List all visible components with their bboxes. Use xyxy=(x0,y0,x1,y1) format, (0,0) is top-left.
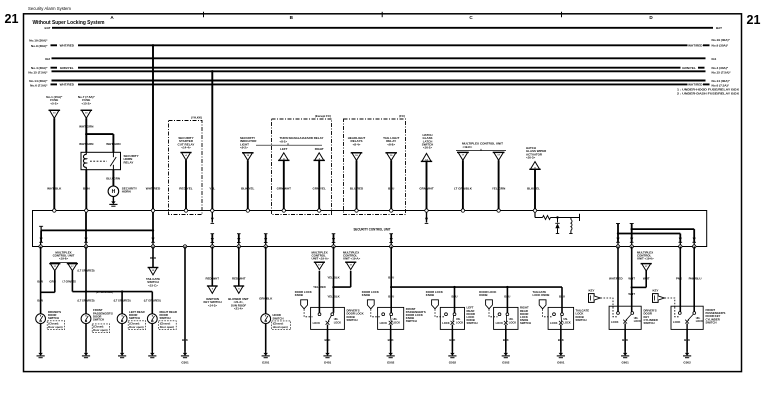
svg-text:21: 21 xyxy=(5,12,19,26)
svg-text:PNK/BLU: PNK/BLU xyxy=(689,276,702,280)
internal out stub x238 xyxy=(237,233,241,235)
svg-text:GRN/BLK: GRN/BLK xyxy=(259,296,273,300)
internal arrow 1 xyxy=(40,230,42,242)
hood switch xyxy=(265,247,267,314)
pin top x283 xyxy=(282,209,285,212)
svg-text:GRN/YEL: GRN/YEL xyxy=(313,186,327,190)
svg-text:SWITCH: SWITCH xyxy=(406,319,417,323)
internal resistor network xyxy=(534,212,536,217)
internal out stub x391 xyxy=(389,233,393,235)
svg-text:SWITCH: SWITCH xyxy=(93,318,104,322)
pin top x391 xyxy=(390,209,393,212)
svg-text:2 : UNDER-DASH FUSE/RELAY BOX: 2 : UNDER-DASH FUSE/RELAY BOX xyxy=(677,92,739,96)
svg-text:RED/WHT: RED/WHT xyxy=(206,276,220,280)
pin bottom x631 xyxy=(630,245,633,248)
pin bottom x185 xyxy=(183,245,186,248)
pin bottom x212 xyxy=(211,245,214,248)
svg-text:GRN: GRN xyxy=(49,279,55,283)
svg-text:(LT GRN/RED): (LT GRN/RED) xyxy=(114,298,131,302)
ground G601 b5 xyxy=(560,351,562,354)
bus wire No.14 xyxy=(52,80,706,82)
svg-text:SWITCH: SWITCH xyxy=(706,320,717,324)
svg-text:BLK: BLK xyxy=(503,338,510,342)
svg-text:SWITCH: SWITCH xyxy=(48,316,59,320)
pin top x462 xyxy=(461,209,464,212)
svg-text:SWITCH: SWITCH xyxy=(160,316,171,320)
svg-text:BLU: BLU xyxy=(388,275,394,279)
internal out stub x265 xyxy=(264,233,268,235)
ground driver door switch xyxy=(40,351,42,354)
wire BLK to G301 xyxy=(184,247,186,352)
svg-text:WHT/RED: WHT/RED xyxy=(146,186,161,190)
internal cross wire 2 xyxy=(618,233,680,235)
svg-text:LOCK: LOCK xyxy=(563,320,570,324)
svg-text:BLU/GRN: BLU/GRN xyxy=(106,177,120,181)
ground G502 b3 xyxy=(451,351,453,354)
ignition key switch ref xyxy=(211,247,213,287)
svg-text:BAT: BAT xyxy=(45,26,51,30)
right rear door lock knob switch xyxy=(494,307,518,329)
ground G502 b4 xyxy=(505,351,507,354)
pin bottom x391 xyxy=(390,245,393,248)
svg-text:G502: G502 xyxy=(449,360,457,364)
dash-dot box FC xyxy=(344,119,406,215)
svg-text:21: 21 xyxy=(747,13,761,27)
wire WHT key cyl xyxy=(631,247,633,313)
security control unit xyxy=(33,211,707,247)
svg-text:SWITCH: SWITCH xyxy=(520,321,531,325)
svg-text:KNOB: KNOB xyxy=(426,293,434,297)
pin top x247 xyxy=(246,209,249,212)
svg-text:SWITCH: SWITCH xyxy=(644,321,655,325)
svg-text:G502: G502 xyxy=(683,360,691,364)
svg-text:KNOB: KNOB xyxy=(479,293,487,297)
svg-text:G502: G502 xyxy=(387,360,395,364)
relay security horn relay xyxy=(81,152,121,169)
svg-text:LT GRN/RED: LT GRN/RED xyxy=(62,279,76,283)
svg-text:BLK: BLK xyxy=(684,338,691,342)
wire BLU drop right rear xyxy=(506,286,508,288)
internal diode xyxy=(557,218,559,223)
svg-text:BLU: BLU xyxy=(559,295,565,299)
wire PNK/BLU xyxy=(693,247,695,313)
svg-text:Hood open): Hood open) xyxy=(273,325,288,329)
svg-text:Door open): Door open) xyxy=(48,325,62,329)
pin bottom x86 xyxy=(84,245,87,248)
svg-text:GRN/WHT: GRN/WHT xyxy=(277,186,291,190)
internal coil xyxy=(570,218,572,220)
wire BLU drop tailgate xyxy=(561,287,563,313)
svg-text:BLK/YEL: BLK/YEL xyxy=(527,186,540,190)
svg-text:WHT/RED: WHT/RED xyxy=(688,44,703,48)
right rear door switch xyxy=(147,314,157,324)
svg-text:BLK: BLK xyxy=(622,338,629,342)
svg-text:(Closed:: (Closed: xyxy=(93,325,104,329)
svg-text:(FC): (FC) xyxy=(399,114,405,118)
ground G601 kc1 xyxy=(624,351,626,354)
svg-text:B/W: B/W xyxy=(37,279,43,283)
pin top x86 xyxy=(85,209,88,212)
svg-text:GRN/YEL: GRN/YEL xyxy=(60,66,74,70)
wire LT GRN/RED passenger xyxy=(85,247,87,314)
pin top x498 xyxy=(497,209,500,212)
svg-text:RIGHT: RIGHT xyxy=(315,147,324,151)
svg-text:(Closed:: (Closed: xyxy=(129,321,140,325)
pin bottom x333 xyxy=(332,245,335,248)
driver's door switch xyxy=(36,314,46,324)
wire branch to relay contact xyxy=(86,133,113,135)
svg-text:GRN/WHT: GRN/WHT xyxy=(419,186,433,190)
svg-text:Without Super Locking System: Without Super Locking System xyxy=(33,20,105,26)
svg-text:LOCK: LOCK xyxy=(380,321,387,325)
svg-text:LOCK: LOCK xyxy=(393,320,400,324)
svg-text:BLK: BLK xyxy=(182,338,189,342)
svg-text:YEL/RED: YEL/RED xyxy=(313,285,326,289)
wire BLU main xyxy=(390,247,392,313)
wire B/W driver door switch xyxy=(40,247,42,314)
svg-text:G401: G401 xyxy=(324,360,332,364)
svg-text:<5-2>: <5-2> xyxy=(50,101,58,105)
svg-text:BLK: BLK xyxy=(388,338,395,342)
svg-text:<15-2>: <15-2> xyxy=(82,101,92,105)
dash-dot box YH KK xyxy=(169,121,203,215)
pin bottom x153 xyxy=(151,245,154,248)
wire YEL feed xyxy=(211,70,213,72)
security horn xyxy=(108,186,119,197)
wire left rear xyxy=(121,292,123,314)
wire BLU drop left rear xyxy=(453,286,455,288)
column tick C/D xyxy=(561,12,563,17)
svg-text:IG1: IG1 xyxy=(712,57,717,61)
pin bottom x618 xyxy=(616,245,619,248)
svg-text:RED/YEL: RED/YEL xyxy=(179,186,193,190)
svg-text:WHT/BLK: WHT/BLK xyxy=(47,186,62,190)
svg-text:(Except FC): (Except FC) xyxy=(315,114,331,118)
ground G201 xyxy=(265,351,267,354)
svg-text:BLU: BLU xyxy=(504,295,510,299)
svg-text:G201: G201 xyxy=(262,360,270,364)
internal stub A xyxy=(616,223,620,225)
svg-text:SWITCH: SWITCH xyxy=(576,318,587,322)
svg-text:YEL: YEL xyxy=(209,186,215,190)
svg-text:<21-4>: <21-4> xyxy=(234,306,243,310)
svg-text:<9-2>: <9-2> xyxy=(240,146,248,150)
svg-text:B/W: B/W xyxy=(37,298,43,302)
svg-text:No.9 (30A)*: No.9 (30A)* xyxy=(712,44,729,48)
front passenger's door switch xyxy=(81,314,91,324)
svg-text:Door open): Door open) xyxy=(93,328,107,332)
svg-text:PNK: PNK xyxy=(676,276,683,280)
svg-text:SECURITY CONTROL UNIT: SECURITY CONTROL UNIT xyxy=(354,228,391,232)
ground G301 xyxy=(184,351,186,354)
svg-text:SWITCH: SWITCH xyxy=(467,321,478,325)
pin top x319 xyxy=(318,209,321,212)
svg-text:BAT: BAT xyxy=(716,26,722,30)
svg-text:LOCK: LOCK xyxy=(611,320,618,324)
pin bottom x265 xyxy=(264,245,267,248)
svg-text:WHT/RED: WHT/RED xyxy=(60,44,75,48)
svg-text:WHT/GRN: WHT/GRN xyxy=(79,142,93,146)
svg-text:YEL/BLK: YEL/BLK xyxy=(327,295,340,299)
tailgate lock knob switch xyxy=(548,307,574,329)
svg-text:No.9 (30A)*: No.9 (30A)* xyxy=(31,44,48,48)
ground left rear door switch xyxy=(121,351,123,354)
svg-text:Door open): Door open) xyxy=(129,325,143,329)
ground G401 xyxy=(327,351,329,354)
ground passenger door switch xyxy=(85,351,87,354)
svg-text:LOCK: LOCK xyxy=(496,321,503,325)
svg-text:GRN/YEL: GRN/YEL xyxy=(682,66,696,70)
internal wire 3 xyxy=(152,212,154,242)
bus wire IG2 xyxy=(52,57,706,59)
pin top x426 xyxy=(425,209,428,212)
blower unit ref xyxy=(238,247,240,287)
ground G502 kc2 xyxy=(686,351,688,354)
pin bottom x40 xyxy=(39,245,42,248)
svg-text:<16-3>: <16-3> xyxy=(526,155,535,159)
left rear door switch xyxy=(117,314,127,324)
svg-text:WHT: WHT xyxy=(643,276,650,280)
svg-text:(LT GRN/RED): (LT GRN/RED) xyxy=(144,298,161,302)
svg-text:KEY: KEY xyxy=(589,288,595,292)
internal out stub x212 xyxy=(211,233,215,235)
svg-text:WHT/RED: WHT/RED xyxy=(60,83,75,87)
svg-text:G601: G601 xyxy=(621,360,629,364)
svg-text:KNOB: KNOB xyxy=(295,293,303,297)
svg-text:(LT GRN/RED): (LT GRN/RED) xyxy=(96,290,113,294)
svg-text:BRN: BRN xyxy=(83,186,90,190)
svg-text:<15-C>: <15-C> xyxy=(148,283,158,287)
svg-text:<19-D>: <19-D> xyxy=(463,145,473,149)
internal cross wire 1 xyxy=(632,228,695,230)
svg-text:KNOB: KNOB xyxy=(362,293,370,297)
svg-text:BLK: BLK xyxy=(325,338,332,342)
svg-text:LEFT: LEFT xyxy=(280,147,287,151)
svg-text:LOCK KNOB: LOCK KNOB xyxy=(533,293,550,297)
svg-text:Door open): Door open) xyxy=(160,325,174,329)
svg-text:<14-4>: <14-4> xyxy=(181,146,191,150)
svg-text:YEL/BLK: YEL/BLK xyxy=(327,275,340,279)
svg-text:LOCK: LOCK xyxy=(334,320,341,324)
svg-text:WHT/GRN: WHT/GRN xyxy=(106,142,120,146)
svg-text:BLU: BLU xyxy=(388,186,394,190)
svg-text:<8-4>: <8-4> xyxy=(353,142,361,146)
ground at horn xyxy=(112,197,114,200)
front passenger's door lock knob switch xyxy=(378,307,404,329)
svg-text:WHT: WHT xyxy=(628,276,635,280)
svg-text:RED/WHT: RED/WHT xyxy=(232,276,246,280)
wire BLU bus xyxy=(391,286,562,288)
svg-text:(Closed:: (Closed: xyxy=(160,321,171,325)
svg-text:LOCK: LOCK xyxy=(634,319,641,323)
svg-text:G601: G601 xyxy=(557,360,565,364)
bus wire BAT xyxy=(52,27,713,29)
svg-text:<19-6>: <19-6> xyxy=(59,257,68,261)
svg-text:WHT: WHT xyxy=(628,292,635,296)
wire YEL/BLK xyxy=(350,271,352,287)
ground G502 b2 xyxy=(390,351,392,354)
svg-text:No.15 (7.5A)*: No.15 (7.5A)* xyxy=(712,70,732,74)
svg-text:BLU/RED: BLU/RED xyxy=(350,186,364,190)
bus wire No.15 xyxy=(52,70,706,72)
svg-text:LOCK: LOCK xyxy=(442,321,449,325)
svg-text:(Closed:: (Closed: xyxy=(273,322,284,326)
svg-text:H: H xyxy=(112,189,116,195)
pin top x535 xyxy=(533,209,536,212)
svg-text:No.14 (30A)*: No.14 (30A)* xyxy=(712,79,731,83)
driver's door lock knob switch xyxy=(311,307,345,329)
svg-text:RED: RED xyxy=(150,256,156,260)
column tick B/C xyxy=(381,12,383,17)
pin top x153 xyxy=(151,209,154,212)
svg-text:G301: G301 xyxy=(181,360,189,364)
wire WHT/RED key cyl xyxy=(617,247,619,313)
wire branch rear doors xyxy=(86,291,152,293)
svg-text:BLK: BLK xyxy=(449,338,456,342)
internal stub hatch latch input xyxy=(426,212,428,222)
driver's door key cylinder switch xyxy=(609,306,641,329)
svg-text:No.15 (7.5A)*: No.15 (7.5A)* xyxy=(28,71,48,75)
pin bottom x680 xyxy=(679,245,682,248)
svg-text:BLK/YEL: BLK/YEL xyxy=(241,186,254,190)
svg-text:RELAY: RELAY xyxy=(124,160,134,164)
wire GRN xyxy=(54,271,56,293)
internal out stub x333 xyxy=(332,233,336,235)
svg-text:UNIT <19-6>: UNIT <19-6> xyxy=(637,257,654,261)
svg-text:G502: G502 xyxy=(502,360,510,364)
tailgate switch ref xyxy=(152,247,154,268)
dash-dot box Except FC xyxy=(272,119,332,215)
svg-text:LOCK: LOCK xyxy=(509,320,516,324)
wire WHT/GRN xyxy=(85,118,87,152)
svg-text:<8-8>: <8-8> xyxy=(387,142,395,146)
svg-text:No.19 (30A)*: No.19 (30A)* xyxy=(712,38,731,42)
svg-text:WHT/RED: WHT/RED xyxy=(688,83,703,87)
wire BRN to control unit xyxy=(85,170,87,211)
svg-text:UNIT <19-A>: UNIT <19-A> xyxy=(312,257,330,261)
svg-text:<16-2>: <16-2> xyxy=(423,146,432,150)
svg-text:No.6 (7.5A)*: No.6 (7.5A)* xyxy=(30,83,48,87)
svg-text:UNIT <19-A>: UNIT <19-A> xyxy=(343,257,361,261)
pin top x356 xyxy=(355,209,358,212)
svg-text:LOCK: LOCK xyxy=(696,319,703,323)
column tick A/B xyxy=(203,12,205,17)
svg-text:(YH,KK): (YH,KK) xyxy=(191,116,202,120)
front passenger's door key cylinder switch xyxy=(671,306,703,329)
svg-text:(Closed:: (Closed: xyxy=(48,321,59,325)
pin bottom x238 xyxy=(237,245,240,248)
svg-text:IG2: IG2 xyxy=(45,57,50,61)
svg-text:LOCK: LOCK xyxy=(313,321,320,325)
wire PNK xyxy=(679,247,681,313)
svg-text:SWITCH: SWITCH xyxy=(273,316,284,320)
svg-text:LOCK: LOCK xyxy=(673,320,680,324)
left rear door lock knob switch xyxy=(440,307,464,329)
svg-text:SWITCH: SWITCH xyxy=(347,318,358,322)
svg-text:BLU: BLU xyxy=(388,295,394,299)
wire BLU/GRN xyxy=(112,170,114,186)
pin bottom x694 xyxy=(693,245,696,248)
svg-text:BLU: BLU xyxy=(452,295,458,299)
svg-text:YEL/GRN: YEL/GRN xyxy=(492,186,505,190)
svg-text:No.4 (30A)*: No.4 (30A)* xyxy=(31,66,48,70)
internal wire 2 xyxy=(85,212,87,242)
svg-text:HORN: HORN xyxy=(122,190,131,194)
svg-text:WHT/GRN: WHT/GRN xyxy=(79,124,93,128)
wire right rear xyxy=(151,292,153,314)
svg-text:Security Alarm System: Security Alarm System xyxy=(28,6,71,12)
pin top x186 xyxy=(184,209,187,212)
svg-text:No.19 (30A)*: No.19 (30A)* xyxy=(29,39,48,43)
svg-text:<8-2>: <8-2> xyxy=(280,140,288,144)
wire WHT/RED feed xyxy=(152,44,154,46)
svg-text:KEY: KEY xyxy=(653,288,659,292)
svg-text:LT GRN/BLK: LT GRN/BLK xyxy=(454,186,473,190)
wire LT GRN/RED arrow2 xyxy=(71,271,73,292)
pin top x212 xyxy=(211,209,214,212)
svg-text:LOCK: LOCK xyxy=(456,320,463,324)
pin top x54 xyxy=(53,209,56,212)
svg-text:SWITCH: SWITCH xyxy=(129,316,140,320)
internal stub YEL input xyxy=(211,212,213,222)
svg-text:WHT/RED: WHT/RED xyxy=(609,276,623,280)
svg-text:(LT GRN/RED): (LT GRN/RED) xyxy=(78,269,95,273)
svg-text:(LT GRN/RED): (LT GRN/RED) xyxy=(78,298,95,302)
internal stub B xyxy=(630,223,634,225)
svg-text:BLK: BLK xyxy=(558,338,565,342)
internal bus xyxy=(39,225,43,227)
svg-text:LOCK: LOCK xyxy=(550,321,557,325)
ground right rear door switch xyxy=(151,351,153,354)
svg-text:<14-3>: <14-3> xyxy=(208,303,217,307)
